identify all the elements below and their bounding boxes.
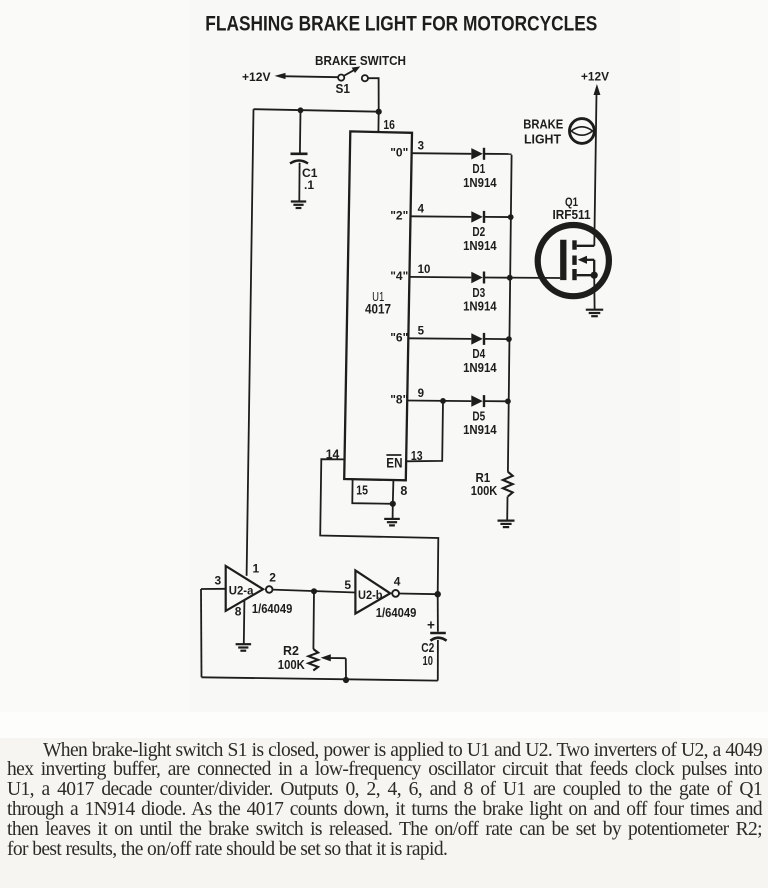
wire pin 3 to diode D1: [412, 152, 472, 155]
svg-text:1N914: 1N914: [463, 175, 497, 190]
lamp brake light: [570, 119, 595, 144]
wire junction down to C2: [437, 594, 439, 631]
wire pin 4 to diode D2: [411, 215, 472, 218]
wire pin 5 to diode D4: [408, 337, 471, 340]
wire diode D4 to bus: [485, 338, 509, 340]
svg-text:1/64049: 1/64049: [252, 601, 292, 616]
op-amp U2-a inverter: [226, 566, 263, 611]
node junction pin16 tap: [376, 109, 382, 115]
svg-text:1: 1: [253, 562, 260, 576]
wire C2 to bottom rail: [437, 640, 439, 681]
wire diode D3 to bus: [485, 277, 510, 279]
wire left input rail down: [200, 589, 203, 677]
svg-text:"6": "6": [390, 331, 408, 345]
wire top rail horizontal: [254, 109, 379, 112]
node R2 tap junction: [311, 588, 317, 594]
svg-text:15: 15: [356, 483, 368, 497]
op-amp U1 4017 IC body: [344, 131, 412, 480]
wire diode D1 to bus: [485, 153, 512, 155]
svg-text:+: +: [427, 618, 435, 633]
wire U2-a output to U2-b input: [273, 590, 356, 593]
svg-text:100K: 100K: [471, 483, 498, 498]
diode D3: [471, 272, 484, 284]
svg-text:4: 4: [418, 204, 425, 216]
svg-text:3: 3: [418, 141, 424, 153]
wire pin 14 to U2-b output: [320, 459, 438, 594]
wire U2-a input: [201, 588, 226, 590]
transistor Q1 MOSFET: [538, 225, 609, 296]
svg-text:100K: 100K: [278, 657, 306, 672]
node pin8/15 junction: [390, 501, 396, 507]
svg-text:U2-a: U2-a: [229, 583, 254, 597]
ground U2-a pin8: [236, 644, 252, 651]
wire pin13 EN feedback: [406, 401, 443, 461]
wire bottom feedback rail: [202, 677, 438, 680]
ground Q1 source: [586, 310, 603, 317]
node U2-b output junction: [435, 591, 441, 597]
wire pin 9 to diode D5: [407, 400, 471, 403]
svg-text:"0": "0": [390, 145, 408, 159]
op-amp U2-b inverter: [355, 570, 390, 613]
node junction C1 tap: [298, 107, 304, 113]
wire diode D2 to bus: [485, 216, 511, 218]
diode D2: [471, 211, 484, 223]
svg-text:EN: EN: [386, 455, 402, 470]
capacitor C2: [430, 633, 446, 641]
svg-text:3: 3: [215, 574, 222, 588]
diode D1: [471, 148, 484, 160]
svg-text:16: 16: [383, 118, 395, 132]
svg-text:8: 8: [400, 484, 407, 498]
diode D4: [471, 333, 484, 345]
ground U1 pin8: [384, 519, 400, 526]
wire left +12V rail down to U2-a pin1: [247, 109, 254, 576]
wire U2-b output: [399, 593, 438, 596]
R2 wiper arrow: [321, 654, 346, 680]
svg-text:1N914: 1N914: [463, 422, 497, 437]
svg-text:BRAKE: BRAKE: [523, 117, 563, 131]
diode D5: [471, 395, 484, 407]
resistor R1: [503, 472, 513, 497]
wire gate lead from bus: [510, 277, 561, 279]
svg-text:13: 13: [411, 449, 423, 463]
caption paragraph: [7, 741, 762, 860]
svg-text:+12V: +12V: [581, 70, 609, 84]
svg-text:1N914: 1N914: [463, 238, 497, 253]
wire pin 16: [377, 112, 379, 132]
node pin9 junction: [440, 398, 446, 404]
ground R1: [498, 521, 515, 528]
switch S1: [338, 66, 368, 81]
svg-text:1N914: 1N914: [463, 299, 497, 314]
svg-text:2: 2: [269, 571, 276, 585]
node U2-b output bubble: [392, 590, 399, 597]
wire to C1: [299, 110, 302, 153]
wire junction to R2: [312, 591, 315, 649]
wire +12V arrow to S1: [275, 73, 339, 79]
svg-text:U2-b: U2-b: [358, 588, 383, 602]
node bus junction D4: [506, 336, 512, 342]
wire diode D5 to bus: [485, 400, 508, 402]
wire pin 8 stub: [392, 480, 395, 504]
ground C1: [291, 202, 306, 209]
svg-text:4: 4: [394, 575, 401, 589]
svg-text:FLASHING BRAKE LIGHT FOR MOTOR: FLASHING BRAKE LIGHT FOR MOTORCYCLES: [205, 12, 597, 36]
svg-text:.1: .1: [304, 178, 314, 192]
svg-text:S1: S1: [336, 82, 351, 96]
svg-text:R2: R2: [283, 643, 299, 658]
svg-text:"8": "8": [390, 393, 408, 407]
wire R1 to ground: [506, 497, 508, 520]
wire +12V arrow down to Q1 drain: [594, 84, 601, 246]
svg-text:IRF511: IRF511: [553, 207, 591, 222]
node U2-a output bubble: [266, 586, 273, 593]
svg-text:"4": "4": [390, 269, 408, 283]
svg-text:5: 5: [418, 326, 425, 338]
node bus junction D3: [507, 275, 513, 281]
capacitor C1: [290, 154, 308, 164]
svg-text:"2": "2": [390, 209, 408, 223]
svg-text:+12V: +12V: [242, 70, 271, 84]
svg-text:C2: C2: [421, 641, 434, 655]
svg-text:4017: 4017: [365, 302, 391, 317]
wire S1 to top junction: [368, 78, 379, 112]
wire pin 10 to diode D3: [409, 276, 471, 279]
svg-text:10: 10: [418, 264, 431, 276]
svg-text:1N914: 1N914: [463, 360, 497, 375]
svg-text:LIGHT: LIGHT: [524, 132, 561, 146]
svg-text:BRAKE SWITCH: BRAKE SWITCH: [315, 54, 406, 68]
wire U2-a pin8 to ground: [243, 600, 246, 643]
node EN label: [386, 455, 402, 470]
svg-text:5: 5: [344, 578, 351, 592]
svg-text:1/64049: 1/64049: [376, 605, 417, 620]
node wiper junction: [343, 677, 349, 683]
node bus junction D5: [505, 398, 511, 404]
wire pin 15 stub: [352, 479, 393, 504]
wire source to ground: [593, 275, 595, 309]
wire diode bus vertical: [508, 155, 512, 472]
svg-text:10: 10: [423, 654, 433, 668]
wire C1 to ground: [298, 163, 300, 201]
potentiometer R2: [309, 649, 319, 671]
svg-text:8: 8: [235, 605, 242, 619]
wire junction to ground: [392, 504, 394, 518]
svg-text:9: 9: [418, 388, 424, 400]
node bus junction D2: [508, 214, 514, 220]
